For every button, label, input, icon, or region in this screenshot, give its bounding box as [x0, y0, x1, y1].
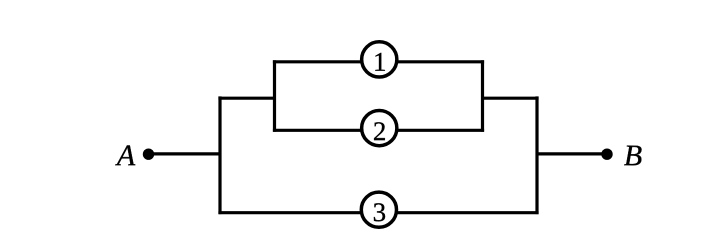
- wire top branch through component 1: [273, 60, 484, 63]
- node B terminal dot: [601, 149, 612, 160]
- svg-text:3: 3: [373, 197, 387, 227]
- wire inner-right vertical of parallel block 1-2: [481, 60, 484, 132]
- wire middle branch through component 2: [273, 129, 484, 132]
- wire inner-left vertical of parallel block 1-2: [273, 60, 276, 132]
- component 2 circle symbol: [362, 111, 397, 146]
- svg-text:2: 2: [373, 116, 387, 146]
- svg-text:A: A: [115, 139, 136, 172]
- component 3 circle symbol: [361, 192, 396, 227]
- wire from right junction to node B: [537, 152, 607, 155]
- wire right top connector from inner parallel block: [483, 97, 539, 100]
- wire from node A to left junction: [149, 152, 221, 155]
- svg-text:1: 1: [373, 47, 387, 77]
- wire right outer vertical: [535, 96, 538, 214]
- wire bottom branch through component 3: [218, 211, 538, 214]
- wire left top connector to inner parallel block: [218, 97, 274, 100]
- node A terminal dot: [143, 149, 154, 160]
- component 1 circle symbol: [362, 42, 397, 77]
- svg-text:B: B: [624, 139, 642, 172]
- wire left outer vertical: [218, 96, 221, 214]
